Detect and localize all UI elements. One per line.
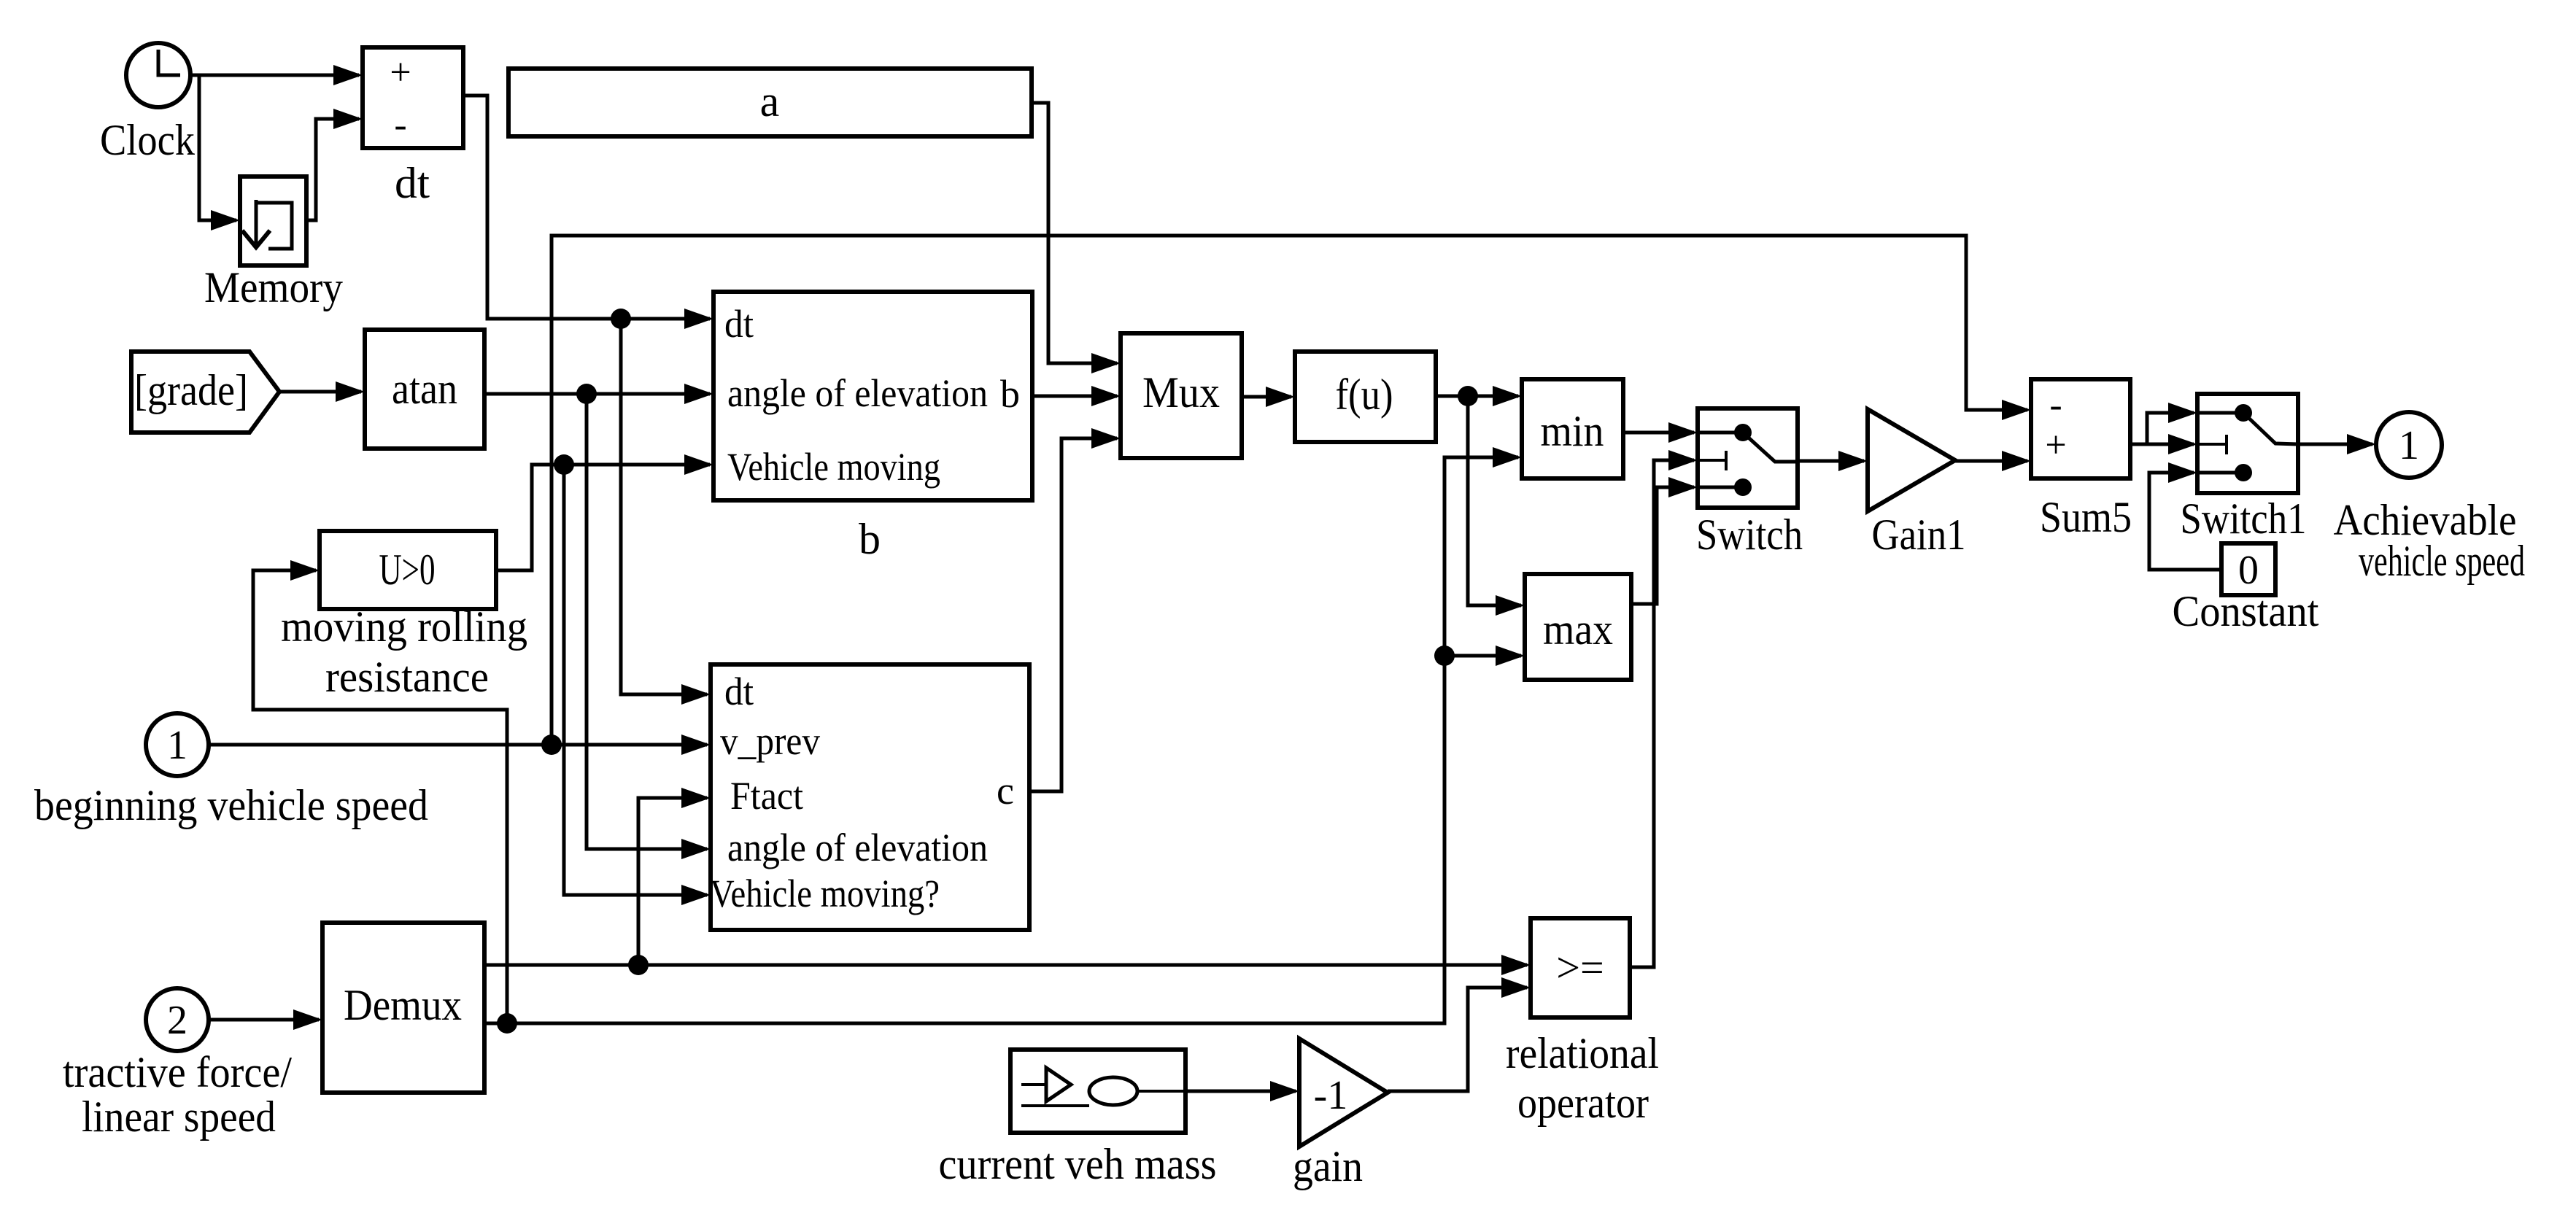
wire Switch1 output to output port bbox=[2298, 434, 2376, 454]
label dt bbox=[395, 159, 430, 207]
wire min output to Switch input 1 bbox=[1623, 422, 1698, 443]
svg-text:[grade]: [grade] bbox=[134, 366, 248, 414]
wire gain output up to relational operator input 2 bbox=[1388, 977, 1531, 1091]
block U>0 bbox=[320, 531, 496, 609]
wire Clock branch down to Memory input bbox=[199, 75, 240, 230]
svg-text:dt: dt bbox=[724, 670, 754, 713]
subsystem block b bbox=[713, 292, 1032, 500]
wire U>0 output to subsystem b vehicle moving input bbox=[496, 454, 713, 570]
relational operator block bbox=[1531, 918, 1630, 1017]
wire grade to atan bbox=[279, 381, 365, 402]
block atan bbox=[365, 330, 484, 449]
svg-text:v_prev: v_prev bbox=[720, 719, 820, 763]
svg-text:linear speed: linear speed bbox=[82, 1093, 276, 1141]
svg-text:current veh mass: current veh mass bbox=[939, 1140, 1217, 1188]
label Gain1 bbox=[1872, 511, 1966, 559]
svg-text:relational: relational bbox=[1506, 1029, 1659, 1077]
label Switch1 bbox=[2181, 495, 2307, 543]
wire Switch output to Gain1 bbox=[1798, 451, 1868, 471]
wire junction down to max input 1 bbox=[1468, 396, 1525, 616]
constant block Constant bbox=[2221, 543, 2275, 595]
wire port 2 to Demux input bbox=[209, 1009, 322, 1030]
wire Memory output to dt sum minus input bbox=[306, 109, 363, 220]
demux block Demux bbox=[322, 923, 484, 1093]
svg-text:Mux: Mux bbox=[1142, 368, 1220, 416]
junction v_prev line bbox=[541, 734, 562, 755]
svg-text:operator: operator bbox=[1517, 1079, 1649, 1127]
svg-text:angle of elevation: angle of elevation bbox=[727, 371, 988, 415]
svg-text:b: b bbox=[1000, 372, 1020, 416]
svg-text:Clock: Clock bbox=[100, 116, 195, 164]
wire dt sum output down to subsystem b dt input bbox=[463, 96, 713, 329]
goto tag [grade] bbox=[131, 352, 279, 433]
min block bbox=[1522, 379, 1623, 478]
label gain bbox=[1293, 1142, 1363, 1190]
junction max feed line bbox=[1434, 645, 1455, 666]
svg-text:2: 2 bbox=[167, 998, 187, 1043]
sum block dt bbox=[363, 47, 463, 148]
svg-text:dt: dt bbox=[395, 159, 430, 207]
wire b output to Mux input 2 bbox=[1032, 386, 1121, 406]
svg-text:Switch: Switch bbox=[1696, 511, 1803, 559]
wire current veh mass to gain bbox=[1185, 1081, 1299, 1101]
label moving rolling resistance bbox=[281, 602, 527, 701]
wire port 1 to subsystem c v_prev input bbox=[209, 734, 711, 755]
output port 1 bbox=[2376, 412, 2442, 478]
switch block Switch bbox=[1698, 408, 1798, 508]
svg-text:c: c bbox=[997, 769, 1014, 813]
svg-text:+: + bbox=[2045, 424, 2066, 466]
label b bbox=[859, 515, 881, 563]
svg-text:Memory: Memory bbox=[204, 263, 343, 311]
svg-text:b: b bbox=[859, 515, 881, 563]
svg-text:beginning vehicle speed: beginning vehicle speed bbox=[34, 781, 428, 829]
svg-text:gain: gain bbox=[1293, 1142, 1363, 1190]
wire c output up to Mux input 3 bbox=[1029, 428, 1121, 791]
label Switch bbox=[1696, 511, 1803, 559]
svg-text:a: a bbox=[760, 77, 780, 125]
wire atan output to subsystem b angle input bbox=[484, 384, 713, 404]
label Constant bbox=[2173, 587, 2319, 635]
mux block Mux bbox=[1121, 333, 1242, 458]
svg-text:vehicle speed: vehicle speed bbox=[2359, 537, 2525, 585]
wire Sum5 output to Switch1 inputs 1 and 2 bbox=[2130, 403, 2197, 454]
input port 2 bbox=[146, 988, 209, 1051]
svg-text:1: 1 bbox=[167, 723, 187, 768]
wire Demux output 2 up to min input 2 bbox=[484, 447, 1522, 1023]
svg-text:+: + bbox=[390, 52, 411, 93]
svg-text:0: 0 bbox=[2238, 548, 2259, 593]
svg-text:f(u): f(u) bbox=[1336, 371, 1393, 419]
svg-text:dt: dt bbox=[724, 302, 754, 346]
label tractive force linear speed bbox=[63, 1048, 292, 1141]
svg-text:>=: >= bbox=[1556, 944, 1604, 991]
label current veh mass bbox=[939, 1140, 1217, 1188]
junction dt line bbox=[611, 309, 631, 329]
svg-text:U>0: U>0 bbox=[379, 546, 436, 594]
junction angle line bbox=[576, 384, 597, 404]
memory block Memory bbox=[240, 177, 306, 265]
wire junction down to subsystem c dt input bbox=[621, 319, 711, 705]
junction Ftact line bbox=[628, 955, 649, 975]
svg-text:Demux: Demux bbox=[344, 981, 462, 1029]
junction U>0 feed line bbox=[497, 1013, 517, 1034]
svg-text:Sum5: Sum5 bbox=[2040, 493, 2132, 541]
wire relational operator output up to Switch control input bbox=[1630, 450, 1698, 967]
svg-text:Vehicle moving: Vehicle moving bbox=[727, 445, 940, 489]
svg-text:Vehicle moving?: Vehicle moving? bbox=[710, 872, 940, 915]
wire Gain1 output to Sum5 plus input bbox=[1955, 451, 2031, 471]
wire junction up to U>0 input bbox=[253, 560, 507, 1023]
label Sum5 bbox=[2040, 493, 2132, 541]
label Clock bbox=[100, 116, 195, 164]
svg-text:tractive force/: tractive force/ bbox=[63, 1048, 292, 1096]
svg-text:atan: atan bbox=[392, 365, 457, 413]
label Achievable vehicle speed bbox=[2334, 496, 2526, 585]
function block f(u) bbox=[1295, 352, 1436, 442]
svg-text:Switch1: Switch1 bbox=[2181, 495, 2307, 543]
svg-text:angle of elevation: angle of elevation bbox=[727, 826, 988, 869]
switch block Switch1 bbox=[2197, 394, 2298, 493]
svg-text:moving rolling: moving rolling bbox=[281, 602, 527, 651]
svg-text:-: - bbox=[2049, 384, 2062, 426]
svg-text:resistance: resistance bbox=[325, 653, 489, 701]
wire junction to max input 2 bbox=[1444, 645, 1525, 666]
svg-text:min: min bbox=[1541, 407, 1604, 455]
svg-text:Gain1: Gain1 bbox=[1872, 511, 1966, 559]
label relational operator bbox=[1506, 1029, 1659, 1127]
wire Mux output to fu bbox=[1242, 387, 1295, 407]
wire Clock to dt sum plus input bbox=[191, 65, 363, 85]
svg-text:max: max bbox=[1543, 605, 1613, 654]
wire Constant output up to Switch1 input 3 bbox=[2149, 462, 2221, 570]
label Memory bbox=[204, 263, 343, 311]
wire a output to Mux input 1 bbox=[1032, 103, 1121, 373]
junction vehicle moving line bbox=[554, 454, 574, 475]
wire max output up to Switch input 3 bbox=[1631, 477, 1698, 604]
wire Demux output 1 to relational operator input 1 bbox=[484, 955, 1531, 975]
wire junction up to subsystem c Ftact input bbox=[638, 788, 711, 965]
max block bbox=[1525, 574, 1631, 680]
junction fu output bbox=[1458, 386, 1478, 406]
subsystem block c bbox=[710, 664, 1029, 930]
svg-text:Constant: Constant bbox=[2173, 587, 2319, 635]
sum block Sum5 bbox=[2031, 379, 2130, 478]
wire junction down to subsystem c vehicle moving input bbox=[564, 465, 711, 905]
gain block gain bbox=[1299, 1039, 1388, 1147]
input port 1 bbox=[146, 713, 209, 776]
label beginning vehicle speed bbox=[34, 781, 428, 829]
svg-text:-1: -1 bbox=[1314, 1073, 1348, 1118]
gain block Gain1 bbox=[1868, 409, 1955, 511]
clock block Clock bbox=[126, 43, 190, 107]
wire feedback from v_prev junction to Sum5 minus input bbox=[552, 236, 2031, 745]
svg-text:-: - bbox=[394, 104, 406, 146]
current veh mass block bbox=[1010, 1050, 1185, 1133]
block a bbox=[508, 69, 1032, 136]
svg-text:1: 1 bbox=[2399, 423, 2419, 468]
svg-text:Ftact: Ftact bbox=[730, 774, 803, 818]
wire fu output to min input 1 bbox=[1436, 386, 1522, 406]
wire junction down to subsystem c angle input bbox=[587, 394, 711, 859]
